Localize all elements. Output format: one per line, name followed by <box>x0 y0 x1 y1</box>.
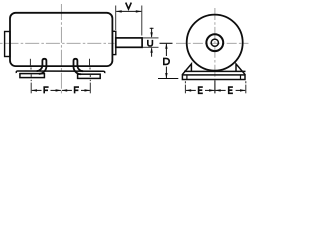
base bar <box>182 75 245 80</box>
V dimension line <box>116 10 141 12</box>
label F right <box>75 87 79 93</box>
E right extension line <box>245 81 247 93</box>
foot pad top line <box>16 71 105 73</box>
base top tangent line <box>184 70 246 72</box>
U dimension extension lines <box>143 37 159 39</box>
E left dimension line <box>186 89 196 91</box>
shaft hub boss <box>112 31 115 54</box>
label F left <box>44 87 48 93</box>
right flange slant <box>236 64 245 75</box>
label E right <box>229 87 233 93</box>
F left extension line <box>29 59 32 94</box>
label D <box>164 58 169 64</box>
D dimension top extension (centerline tick) <box>160 42 173 44</box>
left foot pad <box>20 74 45 78</box>
F right extension line <box>89 59 92 94</box>
E right dimension line <box>215 89 225 91</box>
F right dimension line <box>62 89 72 91</box>
right foot pad <box>78 74 101 78</box>
shaft <box>116 38 142 47</box>
right foot strap <box>73 59 81 74</box>
horizontal centerline through both views <box>0 42 115 44</box>
label E left <box>199 87 203 93</box>
V dimension extension lines <box>115 6 117 31</box>
F left dimension line <box>32 89 42 91</box>
hub circle <box>206 34 223 51</box>
left end tab <box>5 32 10 57</box>
D dimension line and arrows <box>165 44 167 56</box>
left foot strap <box>39 59 47 74</box>
E center extension line <box>214 81 216 94</box>
shaft circle <box>211 39 218 46</box>
label U <box>148 40 153 46</box>
motor body (side view) <box>10 13 112 66</box>
U dimension arrows <box>151 28 153 37</box>
vertical centerline end view <box>214 8 216 94</box>
vertical centerline side view <box>60 4 62 94</box>
end view big circle <box>187 15 243 71</box>
D dimension bottom extension <box>158 78 178 80</box>
E left extension line <box>184 81 186 93</box>
left flange slant <box>182 64 191 75</box>
label V <box>126 3 132 9</box>
